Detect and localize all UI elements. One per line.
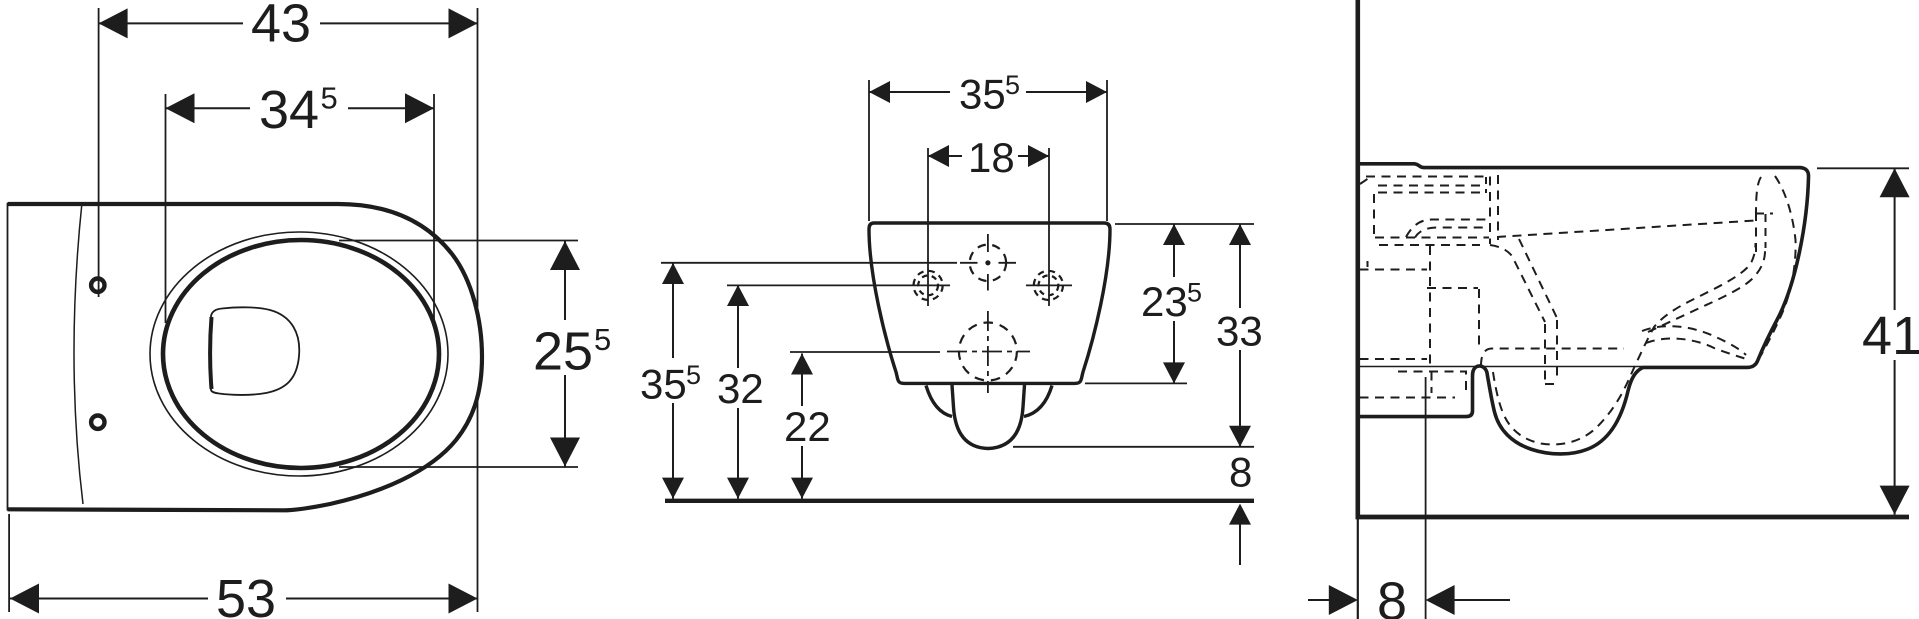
svg-text:25: 25 [533,321,593,381]
dim 43 line [99,22,478,24]
dashed inlet base line [1375,237,1489,239]
side view body outline [1359,164,1809,454]
right ext top [1115,223,1254,225]
dim 25.5 line [564,241,566,467]
svg-text:18: 18 [968,134,1015,181]
top view ceramic back curve [74,203,83,505]
dim 35.5 left arrow top [662,263,684,284]
svg-text:43: 43 [251,0,311,54]
dashed flush inlet box top [1366,176,1487,178]
dim 32 arrow top [727,285,749,306]
dim 23.5 arrow bottom [1163,362,1185,383]
rear view outlet left wing [926,386,952,417]
dim 34.5 text mask [250,86,348,130]
rear view top hole crosshair [960,234,1016,291]
dashed rim channel inner [1648,251,1765,332]
svg-text:34: 34 [259,80,319,140]
dashed downpipe right [1519,239,1557,318]
svg-text:5: 5 [321,80,338,115]
dashed front channel vertical right [1765,214,1767,248]
dim 33 arrow bottom [1229,426,1251,447]
dim 41 text mask [1860,310,1919,360]
rear view outlet right wing [1024,386,1052,417]
dim 18 ext right [1048,148,1050,306]
dashed front channel vertical [1755,212,1757,252]
dim 8 right tail left [1308,599,1329,601]
dashed left lower line [1360,269,1428,271]
leader to bolt holes [727,284,950,286]
top view mounting hole upper [91,279,104,292]
dim 8 middle arrow tail [1239,524,1241,565]
dim 35.5 top ext right [1106,80,1108,221]
svg-text:35: 35 [959,71,1006,118]
dashed outlet pipe right [1556,320,1558,382]
rear view bottom hole crosshair horizontal [947,351,1030,353]
rear view bottom outlet hole dashed circle [959,323,1017,381]
top view bowl rim thick ellipse [163,240,439,468]
dim 35.5 top line [869,91,1107,93]
dim 22 text mask [778,406,828,446]
dim 35.5 top ext left [868,80,870,221]
svg-text:22: 22 [784,403,831,450]
right ext outlet bottom [1013,446,1254,448]
dashed downpipe left [1490,245,1545,322]
dim 53 line [10,598,478,600]
dashed mid horizontal [1427,287,1478,289]
dashed inlet inner line 2 [1378,192,1485,194]
dim 8 right ext line [1425,377,1427,619]
top view outlet D-shape [210,307,300,395]
wall line [1356,0,1361,516]
leader to top hole [661,262,957,264]
dashed outlet pipe bottom [1545,383,1557,385]
dim 8 right tail right [1454,599,1510,601]
dashed inlet right vertical 2 [1497,175,1499,240]
dashed front rim channel top [1756,177,1761,212]
dim 34.5 extension line right [433,94,435,325]
dim 25.5 leader top [339,240,578,242]
rear view right bolt hole outer dashed [1034,271,1063,300]
dashed bowl inner surface [1493,243,1756,444]
dim 32 arrow bottom [727,478,749,499]
dashed spreader hump lower [1415,228,1489,238]
dashed spreader hump upper [1406,220,1489,238]
dashed bracket rect below rim [1398,372,1466,394]
rear view left bolt hole outer dashed [914,271,943,300]
dim 8 right arrow right [1426,585,1455,615]
dim 41 line [1894,168,1896,514]
top view body outline [8,204,483,510]
svg-text:23: 23 [1141,278,1188,325]
rear view top fixing hole dashed circle [970,245,1006,281]
svg-text:5: 5 [1005,70,1020,100]
side view rim thin line [1360,366,1754,368]
dim 34.5 line [166,107,435,109]
svg-text:5: 5 [686,360,701,390]
dim 8 middle arrow below floor [1229,504,1251,525]
dim 34.5 arrow right [405,93,434,123]
dashed water line [1497,221,1755,238]
svg-text:53: 53 [216,569,276,619]
dim 43 extension line right [477,8,479,307]
dashed lower-left line [1360,397,1456,399]
dim 18 line [928,155,1049,157]
rear view body outline [869,223,1110,383]
rear view floor line [665,499,1254,503]
dim 41 ext top [1817,167,1909,169]
dashed mid right vertical [1478,289,1480,346]
dim 18 ext left [927,148,929,306]
svg-text:8: 8 [1229,449,1252,496]
dim 18 arrow left [928,145,949,167]
svg-text:5: 5 [1187,278,1202,308]
dashed line above rim left [1360,358,1428,360]
dashed inlet base line 2 [1379,244,1480,246]
dashed channel to front corner lower [1646,339,1748,360]
svg-text:41: 41 [1862,306,1919,366]
rear view top hole center dot [985,260,990,265]
dim 35.5 left text mask [638,358,708,403]
rear view right bolt hole crosshair [1026,284,1072,286]
dim 33 text mask [1212,308,1268,350]
dim 41 arrow bottom [1880,486,1910,515]
dim 25.5 leader bottom [339,466,578,468]
svg-text:8: 8 [1377,572,1407,619]
rear view right bolt hole inner dashed [1039,276,1059,296]
dim 35.5 left line [672,263,674,499]
dim 23.5 text mask [1136,277,1208,321]
dashed outlet pipe left [1544,324,1546,384]
dashed mid vertical [1429,246,1431,365]
dim 23.5 arrow top [1163,224,1185,245]
dim 53 extension line right [477,399,479,612]
dim 33 line [1239,224,1241,447]
dim 22 line [801,354,803,499]
dashed inlet box right connector [1485,177,1487,193]
rear view bottom hole crosshair vertical [987,311,989,393]
dim 43 extension line left [98,8,100,297]
svg-text:33: 33 [1216,308,1263,355]
dim 25.5 arrow top [550,241,580,270]
dashed over-bowl line [1481,349,1624,367]
dim 32 line [737,285,739,499]
dashed channel to front corner upper [1642,326,1746,355]
dim 32 text mask [712,368,764,408]
dim 22 arrow bottom [791,478,813,499]
dashed inlet right vertical 1 [1489,177,1491,245]
dim 35.5 left arrow bottom [662,478,684,499]
floor line [1356,515,1910,520]
dim 53 text mask [208,575,286,619]
svg-text:32: 32 [717,365,764,412]
dashed wall stub [1367,261,1369,269]
dim 33 arrow top [1229,224,1251,245]
dim 41 arrow top [1880,168,1910,197]
dim 43 arrow right [449,8,478,38]
dim 23.5 line [1173,224,1175,383]
dim 22 arrow top [791,354,813,375]
dim 18 arrow right [1028,145,1049,167]
top view seat outer thin ellipse [150,232,448,476]
dim 35.5 top arrow right [1086,81,1107,103]
dim 34.5 extension line left [165,94,167,323]
dashed inlet diagonal at wall [1360,177,1371,185]
dashed inlet left vertical [1373,194,1375,236]
top view left (wall) edge [7,203,9,511]
dim 43 text mask [243,0,320,44]
svg-text:35: 35 [640,361,687,408]
dim 34.5 arrow left [166,93,195,123]
rear view left bolt hole inner dashed [918,276,938,296]
dashed front inner surface [1761,176,1796,356]
leader to bottom hole [790,351,940,353]
dim 35.5 top text mask [950,70,1026,111]
dim 53 arrow left [10,584,39,614]
dashed inlet inner line 1 [1378,185,1485,187]
dim 25.5 text mask [528,320,616,375]
svg-text:5: 5 [594,322,611,357]
wall line lower thin [1357,516,1359,619]
dim 43 arrow left [99,8,128,38]
top view mounting hole lower [91,416,104,429]
rear view outlet U trapway [952,385,1025,449]
right ext bottom edge [1085,382,1187,384]
dim 53 arrow right [449,584,478,614]
top view outlet D-shape thick left edge [210,317,211,389]
dim 18 text mask [962,136,1018,176]
dim 8 right arrow left [1329,585,1358,615]
dim 35.5 top arrow left [869,81,890,103]
dim 25.5 arrow bottom [550,438,580,467]
dim 53 extension line left [8,514,10,612]
dashed front channel top [1756,213,1773,215]
